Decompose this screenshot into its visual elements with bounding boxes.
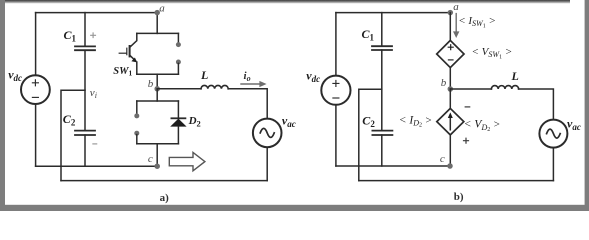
current arrow i_o (a) — [241, 81, 267, 87]
polarity plus near ID2 (b) — [464, 138, 469, 143]
wire vac bottom (a) — [266, 147, 268, 180]
label vdc (b) — [306, 69, 320, 84]
label node b (a) — [148, 78, 154, 90]
DC source vdc (a) — [21, 75, 50, 104]
label node a (a) — [159, 3, 165, 15]
current arrow ISW1 (b) — [453, 14, 459, 38]
node c (a) — [154, 163, 160, 169]
label vac (b) — [567, 117, 581, 132]
svg-text:L: L — [200, 68, 208, 82]
label I_SW1 (b) — [458, 15, 496, 29]
label node c (b) — [440, 153, 445, 165]
label v_i (a) — [90, 87, 97, 100]
label SW1 (a) — [113, 66, 132, 78]
label vdc (a) — [8, 68, 22, 83]
wire bottom rail (b) vdc to node c — [336, 165, 450, 167]
AC source vac (b) — [539, 120, 567, 148]
svg-text:c: c — [440, 153, 445, 165]
DC source vdc (b) — [321, 76, 350, 105]
node b (b) — [448, 86, 454, 92]
wire vdc branch bottom (a) — [35, 104, 37, 166]
wire vdc branch bottom (b) — [335, 105, 337, 166]
wire vdc branch top (a) — [35, 13, 37, 76]
wire top rail (b) — [336, 12, 450, 14]
label i_o (a) — [244, 70, 251, 83]
dependent current source ID2 diamond (b) — [437, 108, 464, 134]
label C2 (a) — [63, 112, 76, 127]
polarity minus near ID2 (b) — [465, 106, 470, 108]
label C1 (b) — [362, 27, 375, 43]
node b (a) — [154, 86, 160, 92]
diode D2 with breaker contacts (a) — [134, 89, 186, 166]
caption a) — [160, 192, 170, 204]
wire load return rail (a) — [61, 180, 267, 182]
capacitor C1 (b) — [372, 46, 392, 50]
label C2 (b) — [362, 114, 375, 129]
wire node b to inductor (b) — [450, 88, 491, 90]
label V_SW1 (b) — [472, 46, 513, 60]
wire vdc branch top (b) — [335, 13, 337, 76]
polarity minus near C2 (a) — [93, 143, 97, 145]
capacitor C2 (b) — [372, 131, 392, 135]
capacitor C2 (a) — [75, 131, 95, 135]
svg-text:b: b — [441, 77, 447, 89]
label L (b) — [511, 69, 519, 83]
label I_D2 (b) — [399, 114, 432, 128]
node c (b) — [447, 163, 453, 169]
capacitor C1 (a) — [75, 46, 95, 50]
node a (a) — [154, 10, 160, 16]
node v_i / measurement bracket wire (a) — [61, 90, 85, 180]
svg-text:L: L — [511, 69, 519, 83]
dependent voltage source VSW1 diamond (b) — [437, 40, 464, 67]
wire bottom rail (a) vdc to node c — [36, 165, 157, 167]
svg-text:b): b) — [454, 191, 464, 203]
wire vac bottom (b) — [552, 148, 554, 181]
measurement bracket wire (b) — [359, 89, 382, 180]
wire load return rail (b) — [359, 180, 554, 182]
inductor L (a) — [201, 85, 228, 88]
wire top rail (a) — [36, 12, 158, 14]
svg-text:b: b — [148, 78, 154, 90]
wire capacitor branch (b) — [381, 13, 383, 166]
wire inductor to vac (b) — [519, 89, 554, 119]
label D2 (a) — [188, 115, 201, 128]
wire inductor to vac corner (a) — [228, 89, 267, 119]
label node a (b) — [453, 1, 459, 13]
switch SW1: IGBT with breaker contacts (a) — [119, 13, 181, 89]
caption b) — [454, 191, 464, 203]
wire node b to lower diamond (b) — [449, 89, 451, 108]
wire diamond to node b (b) — [449, 68, 451, 89]
label node b (b) — [441, 77, 447, 89]
hollow mode arrow (a) — [169, 152, 205, 170]
polarity plus near C1 (a) — [91, 33, 96, 38]
svg-text:a: a — [453, 1, 459, 13]
wire capacitor branch (a) — [84, 13, 86, 167]
wire node b to inductor (a) — [157, 88, 201, 90]
label L (a) — [200, 68, 208, 82]
label node c (a) — [148, 153, 153, 165]
wire lower diamond to node c (b) — [449, 135, 451, 166]
label C1 (a) — [64, 28, 77, 44]
svg-text:a: a — [159, 3, 165, 15]
svg-text:a): a) — [160, 192, 170, 204]
svg-text:c: c — [148, 153, 153, 165]
wire node a to diamond (b) — [449, 13, 451, 41]
label V_D2 (b) — [464, 119, 501, 133]
AC source vac (a) — [253, 119, 282, 148]
label vac (a) — [282, 114, 296, 129]
node a (b) — [448, 10, 454, 16]
inductor L (b) — [491, 86, 518, 89]
